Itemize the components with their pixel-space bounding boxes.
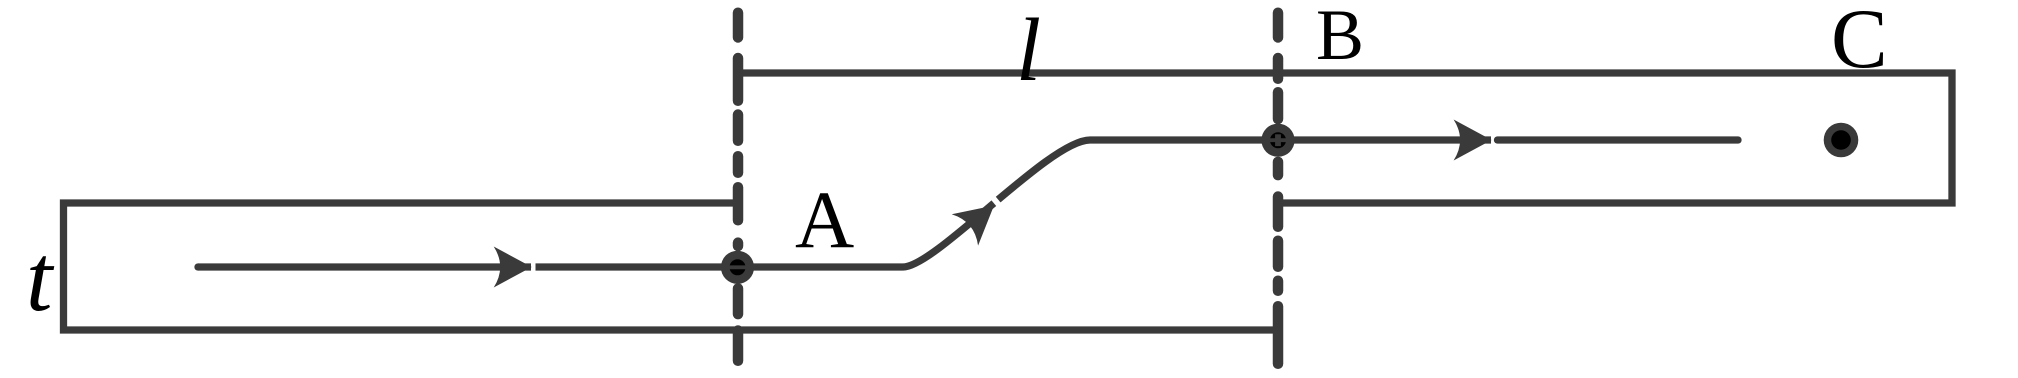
wire trajectory upper end segment bbox=[1498, 136, 1739, 143]
dashed boundary line right bbox=[1273, 13, 1284, 364]
node B stripe overlay vertical bbox=[1275, 134, 1281, 146]
svg-text:t: t bbox=[26, 225, 55, 331]
arrowhead upper bbox=[1454, 120, 1492, 161]
node B core bbox=[1270, 132, 1286, 148]
svg-text:A: A bbox=[795, 174, 854, 265]
node A stripe overlay bbox=[727, 265, 748, 269]
arrowhead diagonal bbox=[952, 190, 1007, 246]
dashed boundary line left bbox=[733, 13, 744, 361]
arrowhead lower bbox=[494, 247, 532, 288]
wire trajectory middle with s-curve bbox=[536, 140, 1492, 267]
svg-text:l: l bbox=[1016, 1, 1041, 100]
node B outer disk bbox=[1261, 124, 1294, 157]
gap notch on s-curve bbox=[990, 195, 1005, 211]
upper tube outline bbox=[739, 73, 1952, 203]
node C core bbox=[1831, 130, 1851, 150]
node A core bbox=[730, 259, 746, 275]
wire trajectory lower segment bbox=[198, 263, 531, 270]
lower tube outline bbox=[64, 203, 1280, 330]
wire start round cap bbox=[194, 263, 201, 270]
svg-text:B: B bbox=[1316, 0, 1364, 75]
node A outer disk bbox=[721, 251, 754, 284]
node C outer disk bbox=[1824, 123, 1859, 158]
svg-text:C: C bbox=[1831, 0, 1888, 86]
node B stripe overlay horizontal bbox=[1268, 138, 1288, 142]
